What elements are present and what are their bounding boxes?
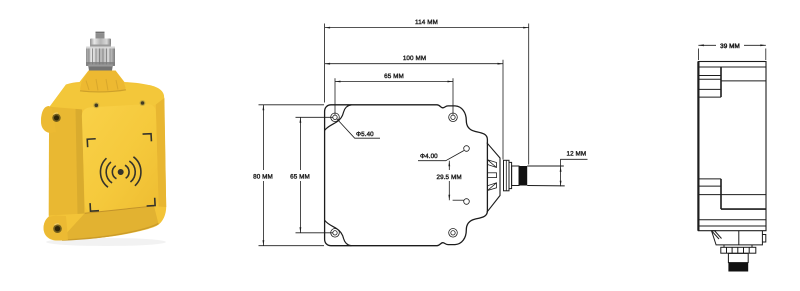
bracket BR [146, 198, 155, 206]
dim 39mm line [698, 44, 765, 46]
dim 65mm top line [335, 81, 453, 83]
icon arcs right [125, 165, 129, 178]
boss ribs [86, 79, 118, 91]
svg-text:65 MM: 65 MM [384, 73, 404, 80]
taper rib middle [488, 173, 497, 178]
side bottom plate lines [698, 220, 766, 226]
dim 80mm extension lines [259, 105, 325, 246]
small hole top [464, 146, 470, 152]
dim 114mm line [325, 27, 529, 29]
dim 65mm top extension lines [335, 78, 453, 115]
svg-text:39 MM: 39 MM [720, 43, 740, 50]
label dia 5.40 leader [337, 119, 381, 139]
dim 65mm vertical line [299, 117, 301, 233]
pad crease bottom-left [325, 220, 352, 245]
boss mount [80, 71, 125, 93]
svg-text:80 MM: 80 MM [253, 173, 273, 180]
svg-text:65 MM: 65 MM [290, 173, 310, 180]
side connector black tip [728, 263, 748, 272]
connector base collar [88, 65, 113, 74]
bottom wedge face [60, 206, 159, 240]
svg-text:12 MM: 12 MM [567, 150, 587, 157]
dim 12mm leader [561, 159, 588, 186]
side connector barrel [728, 253, 748, 262]
side connector nut [721, 247, 756, 253]
dim 29.5mm extension [453, 199, 464, 201]
mounting hole bottom-left [331, 229, 340, 238]
icon group [87, 134, 156, 211]
connector collar nut [504, 160, 510, 191]
dim 100mm extension line [502, 60, 504, 160]
ear bottom-left lobe [44, 216, 68, 241]
svg-text:29.5 MM: 29.5 MM [437, 174, 462, 181]
svg-text:Φ5.40: Φ5.40 [356, 131, 374, 138]
svg-text:Φ4.00: Φ4.00 [420, 153, 438, 160]
side top ear block [698, 96, 721, 98]
dim 29.5mm line [448, 161, 450, 201]
left side crease dark [76, 109, 85, 214]
mounting hole top-left [331, 113, 340, 122]
connector knurled ring [86, 47, 115, 67]
dim 80mm label [251, 170, 276, 181]
body silhouette [41, 71, 166, 241]
taper rib top [488, 160, 497, 168]
mounting hole bottom-right [449, 229, 458, 238]
icon center dot [118, 169, 124, 175]
connector cap [90, 39, 111, 48]
front body outer contour [325, 105, 488, 246]
pad crease top-left [325, 105, 352, 130]
dim 80mm line [262, 105, 264, 246]
ear bottom-left hole [53, 224, 62, 233]
left side face [49, 107, 85, 216]
taper rib bottom [488, 183, 497, 191]
cable stub [527, 166, 565, 186]
label dia 4.00 leader [418, 151, 464, 161]
side bottom ear block [698, 178, 721, 180]
front pad [82, 104, 158, 212]
screw dot right [140, 100, 146, 106]
connector black band [519, 166, 527, 186]
svg-text:114 MM: 114 MM [415, 19, 438, 26]
small hole bottom [464, 199, 470, 205]
side top cover line [698, 66, 766, 68]
top flange face [50, 83, 165, 109]
ear top-left hole [52, 114, 60, 122]
device soft shadow [46, 238, 166, 246]
side left edge thick [697, 62, 699, 231]
mounting hole top-right [449, 113, 458, 122]
bracket BL [90, 203, 99, 211]
right strip face [156, 98, 166, 207]
dim 100mm line [325, 63, 503, 65]
side body outline [698, 62, 766, 231]
dim 65mm vertical extension lines [296, 117, 334, 233]
icon arcs left [112, 166, 116, 179]
side bottom connector housing [712, 231, 763, 245]
side upper full line [721, 80, 766, 82]
screw dot left [93, 102, 99, 108]
connector pin tip [96, 32, 105, 40]
ear top-left lobe [41, 106, 56, 133]
dim 39mm extension lines [698, 49, 765, 61]
svg-text:100 MM: 100 MM [403, 55, 426, 62]
bracket TR [143, 134, 152, 142]
connector barrel [512, 166, 519, 186]
dim 114mm extension lines [325, 24, 529, 165]
bracket TL [87, 139, 96, 147]
dim 65mm vertical label [289, 170, 313, 181]
connector taper boss [487, 143, 500, 213]
